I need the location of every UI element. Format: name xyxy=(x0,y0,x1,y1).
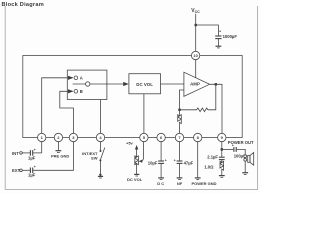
resistor NF to pin7 xyxy=(178,110,182,133)
Vcc supply line xyxy=(195,14,197,51)
feedback resistor R-NF xyxy=(180,84,216,111)
svg-text:+: + xyxy=(34,165,36,169)
wire pin3 to contact B xyxy=(60,91,74,133)
svg-text:PRE GND: PRE GND xyxy=(51,154,69,159)
ground for C1 xyxy=(217,39,219,46)
selector pole contact xyxy=(86,82,90,86)
capacitor C 10uF pin6 xyxy=(158,160,164,162)
wire DC VOL to pin5 xyxy=(143,94,145,133)
pin 5 xyxy=(140,133,148,141)
figure frame xyxy=(5,6,257,189)
IC package outline U1 xyxy=(23,56,242,138)
wire INT cap to pin1 xyxy=(33,152,42,154)
svg-text:+: + xyxy=(219,29,221,33)
svg-text:1.0Ω: 1.0Ω xyxy=(204,164,214,169)
pin 6 xyxy=(157,133,165,141)
svg-text:47µF: 47µF xyxy=(184,160,194,165)
wire cap to speaker xyxy=(236,149,245,154)
svg-text:B: B xyxy=(80,89,83,94)
wire output node to coupling cap xyxy=(222,148,234,150)
capacitor EXT 1uF xyxy=(29,168,31,174)
wire pin6 down xyxy=(160,142,162,161)
svg-text:INT: INT xyxy=(12,151,19,156)
node output xyxy=(221,148,223,150)
svg-text:DC VOL: DC VOL xyxy=(136,82,153,87)
wire selector pole to DC VOL xyxy=(73,83,124,85)
pin 7 xyxy=(175,133,183,141)
selector contact A xyxy=(74,76,78,80)
wire pin1 to contact A xyxy=(42,78,69,153)
wire pin7 down xyxy=(179,142,181,161)
pin 9 xyxy=(218,133,226,141)
svg-text:+: + xyxy=(232,144,234,148)
ground zobel xyxy=(219,175,225,177)
pin 3 xyxy=(69,133,77,141)
svg-text:+: + xyxy=(34,148,36,152)
zobel capacitor 2.1uF xyxy=(221,149,223,157)
capacitor INT 1uF xyxy=(29,150,31,156)
svg-text:+5v: +5v xyxy=(126,141,134,146)
selector contact B xyxy=(74,90,78,94)
wire Vcc to C 1000uF xyxy=(196,25,219,36)
svg-text:10µF: 10µF xyxy=(148,160,158,165)
arrow into contact B xyxy=(68,89,74,93)
svg-text:D C: D C xyxy=(157,181,164,186)
svg-text:10: 10 xyxy=(193,53,198,58)
svg-text:1000µF: 1000µF xyxy=(223,34,238,39)
svg-text:A: A xyxy=(80,76,83,81)
potentiometer DC VOL wiper from pin5 xyxy=(140,142,144,161)
arrow into DC VOL xyxy=(123,82,129,86)
node output junction xyxy=(215,83,217,85)
pin 8 xyxy=(194,133,202,141)
svg-text:EXT: EXT xyxy=(12,168,21,173)
switch INT/EXT SW pin4 xyxy=(100,142,102,150)
zobel resistor 1.0ohm xyxy=(220,160,224,176)
svg-text:Block Diagram: Block Diagram xyxy=(2,2,44,8)
speaker terminals xyxy=(244,155,247,158)
input selector box xyxy=(67,70,107,99)
svg-text:SW: SW xyxy=(91,155,98,160)
wire speaker to ground xyxy=(244,161,246,172)
ground DC pin6 xyxy=(160,163,162,177)
node NF junction xyxy=(178,109,180,111)
svg-text:1µF: 1µF xyxy=(28,173,36,178)
svg-text:VCC: VCC xyxy=(191,8,200,14)
arrow into contact A xyxy=(68,76,74,80)
DC VOL block xyxy=(129,74,161,94)
svg-text:DC VOL: DC VOL xyxy=(127,177,143,182)
wire pin9 to output node xyxy=(221,142,223,150)
ground NF pin7 xyxy=(179,163,181,177)
svg-text:+: + xyxy=(165,158,167,162)
wire AMP output to pin9 xyxy=(210,84,222,133)
wire pin4 to selector box xyxy=(100,100,102,134)
svg-text:+: + xyxy=(174,158,176,162)
capacitor 100uF output xyxy=(233,147,235,152)
svg-text:AMP: AMP xyxy=(190,81,200,86)
capacitor C 47uF pin7 xyxy=(177,160,183,162)
pin 10 Vcc pin xyxy=(191,51,199,59)
pin 4 xyxy=(96,133,104,141)
ground PRE GND pin2 xyxy=(57,142,59,151)
svg-text:2.1µF: 2.1µF xyxy=(207,155,218,160)
svg-text:POWER GND: POWER GND xyxy=(191,181,216,186)
potentiometer DC VOL body xyxy=(135,149,139,174)
speaker body xyxy=(248,155,250,162)
wire NF node to AMP inverting input xyxy=(180,90,184,110)
pin 2 xyxy=(54,133,62,141)
wire DC VOL to AMP input xyxy=(161,83,184,85)
pin 1 xyxy=(38,133,46,141)
capacitor C1 1000uF xyxy=(215,35,221,37)
op-amp AMP xyxy=(184,72,210,96)
ground POWER GND pin8 xyxy=(197,142,199,178)
wire EXT cap to pin3 xyxy=(33,142,74,171)
svg-text:1µF: 1µF xyxy=(28,155,36,160)
node Vcc junction xyxy=(195,24,197,26)
wire pin10 to AMP top xyxy=(195,59,197,78)
svg-text:NF: NF xyxy=(177,181,183,186)
